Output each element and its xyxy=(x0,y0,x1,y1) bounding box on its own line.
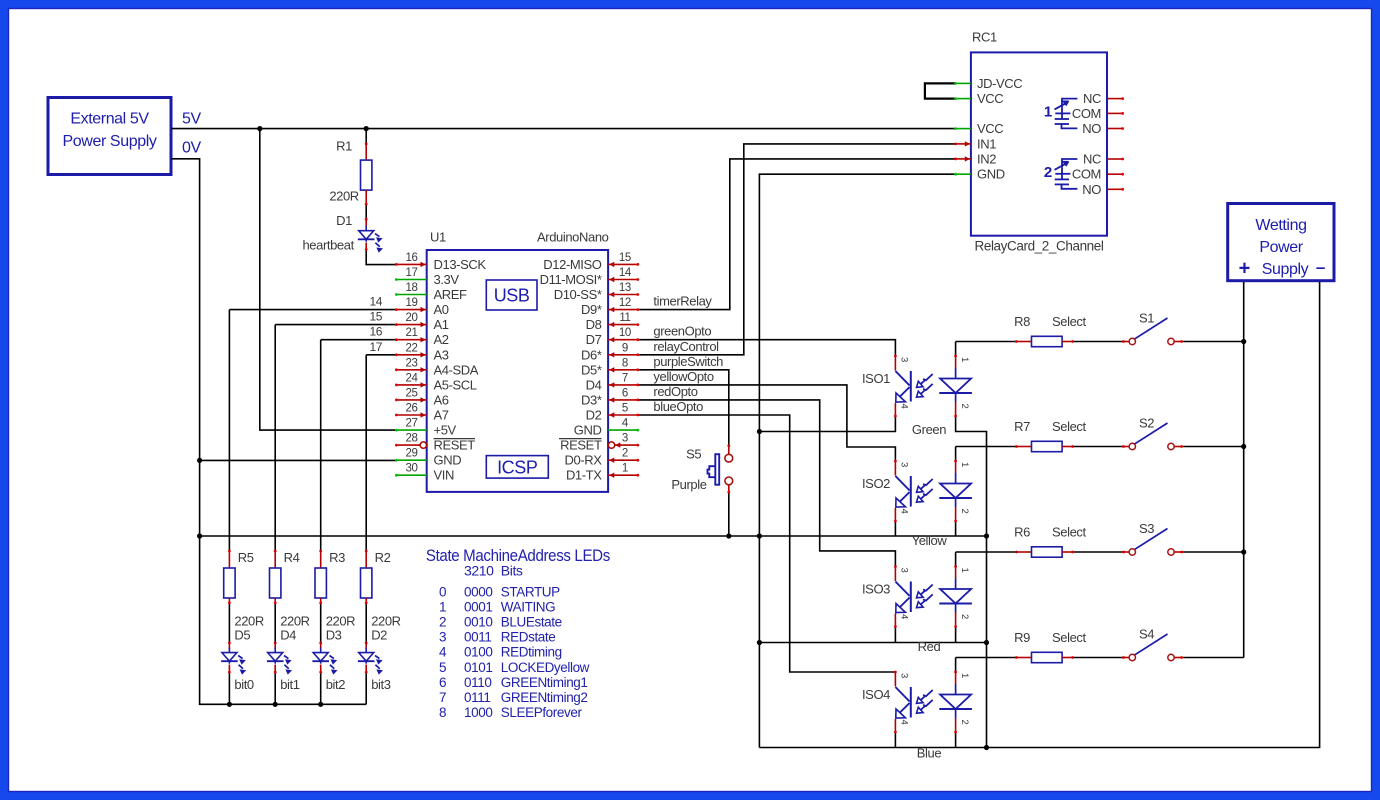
svg-text:R9: R9 xyxy=(1014,630,1030,645)
svg-text:220R: 220R xyxy=(371,614,400,629)
svg-text:D7: D7 xyxy=(586,332,602,347)
svg-text:4: 4 xyxy=(899,614,910,619)
svg-text:ArduinoNano: ArduinoNano xyxy=(537,230,609,245)
svg-text:S3: S3 xyxy=(1139,521,1154,536)
svg-text:RESET: RESET xyxy=(434,438,476,453)
svg-text:1: 1 xyxy=(439,599,446,614)
svg-text:LOCKEDyellow: LOCKEDyellow xyxy=(501,660,590,675)
svg-text:1: 1 xyxy=(959,673,970,678)
svg-text:REDtiming: REDtiming xyxy=(501,645,562,660)
svg-text:9: 9 xyxy=(622,342,628,354)
svg-text:+5V: +5V xyxy=(434,423,457,438)
svg-text:COM: COM xyxy=(1072,106,1101,121)
svg-text:Red: Red xyxy=(918,639,941,654)
svg-text:GREENtiming2: GREENtiming2 xyxy=(501,690,588,705)
svg-text:13: 13 xyxy=(619,282,631,294)
svg-text:COM: COM xyxy=(1072,167,1101,182)
svg-text:22: 22 xyxy=(406,342,418,354)
svg-text:NC: NC xyxy=(1083,91,1101,106)
svg-text:2: 2 xyxy=(959,404,970,409)
svg-text:220R: 220R xyxy=(280,614,309,629)
svg-text:0000: 0000 xyxy=(464,584,492,599)
svg-text:11: 11 xyxy=(619,312,630,324)
svg-text:220R: 220R xyxy=(329,189,358,204)
svg-text:D9*: D9* xyxy=(581,302,602,317)
svg-text:4: 4 xyxy=(439,645,447,660)
svg-text:4: 4 xyxy=(899,509,910,514)
svg-text:Select: Select xyxy=(1052,419,1087,434)
svg-text:ISO4: ISO4 xyxy=(862,687,890,702)
svg-text:Wetting: Wetting xyxy=(1255,217,1306,234)
svg-text:R5: R5 xyxy=(238,550,254,565)
svg-text:VCC: VCC xyxy=(977,91,1003,106)
svg-text:0V: 0V xyxy=(182,140,201,157)
svg-text:S4: S4 xyxy=(1139,627,1154,642)
svg-text:D2: D2 xyxy=(586,408,602,423)
svg-text:1000: 1000 xyxy=(464,705,492,720)
svg-text:D1-TX: D1-TX xyxy=(566,468,602,483)
svg-text:10: 10 xyxy=(619,327,631,339)
svg-text:U1: U1 xyxy=(430,230,446,245)
svg-text:NO: NO xyxy=(1082,121,1101,136)
svg-text:26: 26 xyxy=(406,403,418,415)
svg-text:–: – xyxy=(1316,258,1325,277)
svg-text:bit1: bit1 xyxy=(280,677,300,692)
svg-text:R3: R3 xyxy=(329,550,345,565)
svg-text:3: 3 xyxy=(899,673,910,678)
svg-text:R1: R1 xyxy=(336,139,352,154)
svg-text:28: 28 xyxy=(406,433,418,445)
svg-text:0110: 0110 xyxy=(464,675,491,690)
svg-text:15: 15 xyxy=(369,310,382,324)
svg-text:2: 2 xyxy=(439,614,446,629)
svg-text:16: 16 xyxy=(369,325,382,339)
svg-text:14: 14 xyxy=(369,295,382,309)
svg-text:0100: 0100 xyxy=(464,645,492,660)
svg-text:NC: NC xyxy=(1083,152,1101,167)
svg-text:Power: Power xyxy=(1259,239,1303,256)
svg-text:A3: A3 xyxy=(434,347,449,362)
svg-text:D3*: D3* xyxy=(581,392,602,407)
svg-text:220R: 220R xyxy=(326,614,355,629)
svg-text:A4-SDA: A4-SDA xyxy=(434,362,479,377)
svg-text:IN1: IN1 xyxy=(977,136,996,151)
svg-text:Yellow: Yellow xyxy=(912,533,948,548)
svg-text:IN2: IN2 xyxy=(977,151,996,166)
svg-text:JD-VCC: JD-VCC xyxy=(977,76,1022,91)
svg-text:heartbeat: heartbeat xyxy=(302,238,354,253)
svg-text:6: 6 xyxy=(439,675,446,690)
svg-text:Bits: Bits xyxy=(501,563,523,579)
svg-text:bit3: bit3 xyxy=(371,677,391,692)
svg-text:4: 4 xyxy=(899,720,910,725)
svg-text:3: 3 xyxy=(439,630,446,645)
svg-text:S2: S2 xyxy=(1139,416,1154,431)
svg-text:R7: R7 xyxy=(1014,419,1030,434)
svg-text:+: + xyxy=(1239,258,1250,280)
svg-text:5: 5 xyxy=(622,403,628,415)
svg-text:2: 2 xyxy=(1044,164,1052,181)
svg-text:5V: 5V xyxy=(182,110,201,127)
svg-text:D8: D8 xyxy=(586,317,602,332)
svg-text:ICSP: ICSP xyxy=(497,458,538,478)
svg-text:AREF: AREF xyxy=(434,287,468,302)
svg-text:Purple: Purple xyxy=(671,477,706,492)
svg-text:A7: A7 xyxy=(434,408,449,423)
svg-text:blueOpto: blueOpto xyxy=(653,399,703,414)
svg-text:Select: Select xyxy=(1052,630,1087,645)
svg-text:A1: A1 xyxy=(434,317,449,332)
svg-text:19: 19 xyxy=(406,297,418,309)
svg-text:GND: GND xyxy=(434,453,462,468)
svg-text:3: 3 xyxy=(899,568,910,573)
svg-text:23: 23 xyxy=(406,357,418,369)
svg-text:BLUEstate: BLUEstate xyxy=(501,614,562,629)
svg-text:3: 3 xyxy=(899,462,910,467)
svg-text:D3: D3 xyxy=(326,628,342,643)
svg-text:8: 8 xyxy=(622,357,628,369)
svg-text:R4: R4 xyxy=(284,550,300,565)
svg-text:USB: USB xyxy=(494,286,530,306)
svg-text:18: 18 xyxy=(406,282,418,294)
svg-text:D4: D4 xyxy=(280,628,296,643)
svg-text:3: 3 xyxy=(622,433,628,445)
svg-text:2: 2 xyxy=(959,720,970,725)
svg-text:0111: 0111 xyxy=(464,690,490,705)
svg-text:D11-MOSI*: D11-MOSI* xyxy=(540,272,602,287)
svg-text:1: 1 xyxy=(959,568,970,573)
svg-text:1: 1 xyxy=(1044,104,1052,121)
svg-text:12: 12 xyxy=(619,297,631,309)
svg-text:A2: A2 xyxy=(434,332,449,347)
svg-text:0010: 0010 xyxy=(464,614,492,629)
svg-text:8: 8 xyxy=(439,705,446,720)
svg-text:220R: 220R xyxy=(234,614,263,629)
svg-text:GND: GND xyxy=(574,423,602,438)
svg-text:R2: R2 xyxy=(375,550,391,565)
svg-text:D4: D4 xyxy=(586,377,602,392)
svg-text:27: 27 xyxy=(406,418,418,430)
svg-text:14: 14 xyxy=(619,267,632,279)
svg-text:bit0: bit0 xyxy=(234,677,254,692)
svg-text:GND: GND xyxy=(977,167,1005,182)
svg-text:3.3V: 3.3V xyxy=(434,272,460,287)
svg-text:SLEEPforever: SLEEPforever xyxy=(501,705,583,720)
svg-text:A0: A0 xyxy=(434,302,449,317)
svg-text:D10-SS*: D10-SS* xyxy=(554,287,602,302)
svg-text:yellowOpto: yellowOpto xyxy=(653,369,713,384)
svg-text:purpleSwitch: purpleSwitch xyxy=(653,354,723,369)
svg-text:16: 16 xyxy=(406,252,418,264)
svg-text:Select: Select xyxy=(1052,525,1087,540)
svg-text:1: 1 xyxy=(622,463,628,475)
svg-text:6: 6 xyxy=(622,387,628,399)
svg-text:30: 30 xyxy=(406,463,418,475)
svg-text:0: 0 xyxy=(439,584,446,599)
svg-text:RC1: RC1 xyxy=(972,30,997,45)
svg-text:VIN: VIN xyxy=(434,468,454,483)
svg-text:17: 17 xyxy=(369,340,382,354)
svg-text:bit2: bit2 xyxy=(326,677,346,692)
svg-text:29: 29 xyxy=(406,448,418,460)
svg-text:3210: 3210 xyxy=(464,563,494,579)
svg-text:D13-SCK: D13-SCK xyxy=(434,257,487,272)
svg-text:17: 17 xyxy=(406,267,418,279)
svg-text:STARTUP: STARTUP xyxy=(501,584,560,599)
svg-text:4: 4 xyxy=(622,418,629,430)
svg-text:D12-MISO: D12-MISO xyxy=(543,257,601,272)
svg-text:R6: R6 xyxy=(1014,525,1030,540)
svg-text:R8: R8 xyxy=(1014,314,1030,329)
svg-text:2: 2 xyxy=(959,614,970,619)
svg-text:0101: 0101 xyxy=(464,660,492,675)
svg-text:D2: D2 xyxy=(371,628,387,643)
svg-text:RelayCard_2_Channel: RelayCard_2_Channel xyxy=(975,239,1104,254)
svg-text:4: 4 xyxy=(899,404,910,409)
svg-text:20: 20 xyxy=(406,312,418,324)
svg-text:D6*: D6* xyxy=(581,347,602,362)
svg-text:S5: S5 xyxy=(686,447,701,462)
svg-text:1: 1 xyxy=(959,357,970,362)
svg-text:7: 7 xyxy=(439,690,446,705)
svg-text:0001: 0001 xyxy=(464,599,492,614)
svg-text:2: 2 xyxy=(622,448,628,460)
svg-text:15: 15 xyxy=(619,252,631,264)
svg-text:7: 7 xyxy=(622,372,628,384)
svg-text:D1: D1 xyxy=(336,213,352,228)
svg-text:GREENtiming1: GREENtiming1 xyxy=(501,675,588,690)
svg-text:Blue: Blue xyxy=(917,745,942,760)
svg-text:redOpto: redOpto xyxy=(653,384,697,399)
svg-text:ISO3: ISO3 xyxy=(862,582,890,597)
svg-text:VCC: VCC xyxy=(977,121,1003,136)
svg-text:Select: Select xyxy=(1052,314,1087,329)
svg-text:1: 1 xyxy=(959,462,970,467)
svg-text:21: 21 xyxy=(406,327,418,339)
svg-text:D5*: D5* xyxy=(581,362,602,377)
svg-text:ISO2: ISO2 xyxy=(862,476,890,491)
svg-text:D5: D5 xyxy=(234,628,250,643)
svg-text:WAITING: WAITING xyxy=(501,599,555,614)
svg-text:External 5V: External 5V xyxy=(70,111,149,128)
svg-text:25: 25 xyxy=(406,387,418,399)
svg-text:greenOpto: greenOpto xyxy=(653,324,711,339)
svg-text:A5-SCL: A5-SCL xyxy=(434,377,477,392)
svg-text:Supply: Supply xyxy=(1262,261,1309,278)
svg-text:NO: NO xyxy=(1082,182,1101,197)
svg-text:ISO1: ISO1 xyxy=(862,371,890,386)
svg-text:REDstate: REDstate xyxy=(501,630,556,645)
svg-text:24: 24 xyxy=(406,372,419,384)
svg-text:Power Supply: Power Supply xyxy=(63,133,157,150)
svg-text:relayControl: relayControl xyxy=(653,339,719,354)
svg-text:Green: Green xyxy=(912,422,946,437)
svg-text:0011: 0011 xyxy=(464,630,491,645)
svg-text:3: 3 xyxy=(899,357,910,362)
svg-text:5: 5 xyxy=(439,660,446,675)
svg-text:D0-RX: D0-RX xyxy=(564,453,602,468)
svg-text:timerRelay: timerRelay xyxy=(653,294,712,309)
svg-text:A6: A6 xyxy=(434,392,449,407)
svg-text:S1: S1 xyxy=(1139,311,1154,326)
svg-text:2: 2 xyxy=(959,509,970,514)
svg-text:RESET: RESET xyxy=(560,438,602,453)
